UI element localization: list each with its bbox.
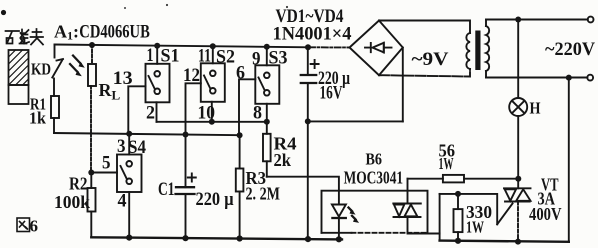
wire DC minus: [308, 120, 403, 122]
capacitor C1: [176, 135, 195, 239]
wire timing net: [54, 133, 240, 135]
switch S3: [239, 47, 279, 135]
speck a: [166, 4, 168, 6]
transformer secondary: [466, 33, 470, 69]
wire gate net: [440, 194, 498, 224]
node dot LED rail: [336, 236, 342, 242]
svg-text:1: 1: [147, 45, 154, 66]
svg-text:1N4001×4: 1N4001×4: [273, 24, 352, 45]
wire switched net: [157, 121, 267, 123]
label fig char: [17, 218, 30, 232]
opto LED: [332, 205, 346, 240]
svg-text:KD: KD: [31, 60, 51, 79]
svg-text:R2: R2: [69, 174, 88, 194]
svg-text:6: 6: [30, 217, 39, 236]
wire R4 to opto LED: [267, 177, 339, 205]
svg-text:400V: 400V: [529, 204, 562, 224]
wire line2 down to rail: [568, 78, 570, 242]
node dot VT top: [515, 176, 521, 182]
switch S2: [186, 46, 225, 134]
resistor R1: [51, 96, 59, 133]
svg-text:S3: S3: [269, 48, 288, 69]
resistor 56: [408, 175, 516, 183]
node dot S4 pin4 rail: [126, 235, 132, 241]
node dot line2: [566, 75, 572, 81]
wire opto pin4 vertical: [439, 194, 441, 241]
svg-text:B6: B6: [366, 150, 383, 169]
node dot 330 rail: [455, 238, 461, 244]
resistor R3: [236, 135, 244, 238]
capacitor 220u 16V: [301, 47, 316, 239]
svg-text:C1: C1: [158, 179, 175, 200]
node dot S2 top: [210, 43, 216, 49]
svg-text:10: 10: [198, 103, 216, 124]
svg-text:2. 2M: 2. 2M: [246, 184, 281, 204]
transformer core: [475, 31, 480, 71]
terminal line2: [587, 75, 593, 81]
label magnet chars: [6, 29, 44, 45]
capacitor 220u plus: [311, 60, 319, 68]
photoresistor RL: [88, 45, 96, 173]
svg-text:S2: S2: [216, 47, 235, 68]
svg-text:8: 8: [253, 103, 262, 124]
svg-text:MOC3041: MOC3041: [344, 168, 404, 188]
svg-text:2k: 2k: [274, 150, 292, 170]
resistor R2: [88, 173, 96, 238]
wire bridge bottom to transformer: [379, 69, 470, 77]
wire lamp to VT: [517, 116, 519, 188]
node dot S3 pin8: [264, 119, 270, 125]
svg-text:~9V: ~9V: [412, 49, 449, 70]
svg-text:S1: S1: [161, 46, 180, 67]
transformer primary: [486, 20, 489, 78]
svg-text:A1:: A1:: [54, 22, 79, 43]
lamp H: [509, 98, 527, 116]
wire bottom rail left: [91, 237, 342, 239]
svg-text:16V: 16V: [320, 84, 343, 104]
wire bridge top to transformer: [379, 21, 470, 34]
node dot C1 rail: [182, 235, 188, 241]
wire lamp branch: [517, 20, 519, 99]
node dot cap top: [305, 44, 311, 50]
triac VT: [497, 188, 530, 241]
node dot C1 top: [183, 132, 189, 138]
node dot S3 top: [264, 44, 270, 50]
node dot S2 pin10: [209, 119, 215, 125]
svg-text:H: H: [530, 99, 541, 118]
opto triac: [393, 179, 439, 234]
resistor 330: [454, 194, 463, 241]
svg-text:1W: 1W: [439, 154, 454, 173]
svg-text:11: 11: [198, 46, 211, 67]
node dot S1 top: [154, 43, 160, 49]
svg-text:100k: 100k: [54, 192, 90, 212]
svg-text:13: 13: [113, 68, 133, 89]
svg-text:1W: 1W: [466, 218, 484, 237]
bridge rectifier VD1-VD4: [350, 21, 403, 76]
svg-text:~220V: ~220V: [545, 39, 595, 60]
svg-text:S4: S4: [128, 137, 146, 158]
node dot R3 top: [237, 132, 243, 138]
light arrows: [70, 56, 85, 77]
node dot S4 pin3: [126, 131, 132, 137]
svg-text:6: 6: [236, 63, 245, 84]
speck b: [286, 6, 288, 8]
node dot 330 top: [455, 191, 461, 197]
switch S1: [128, 46, 169, 134]
speck top left: [1, 10, 6, 15]
optocoupler B6 box: [322, 191, 428, 233]
reed switch KD: [52, 45, 63, 97]
node dot DC minus: [305, 118, 311, 124]
svg-text:12: 12: [183, 65, 200, 86]
resistor R4: [263, 134, 271, 177]
speck c: [124, 7, 126, 9]
node dot line1 lamp: [515, 17, 521, 23]
svg-text:3: 3: [117, 136, 126, 157]
terminal line1: [588, 17, 594, 23]
node dot R3 rail: [237, 235, 243, 241]
svg-text:5: 5: [102, 153, 111, 174]
wire top rail: [55, 45, 310, 48]
svg-text:220 μ: 220 μ: [196, 189, 234, 210]
switch S4: [91, 134, 141, 238]
svg-text:1k: 1k: [29, 109, 47, 128]
node dot VT bottom: [515, 239, 521, 245]
magnet body: [9, 50, 29, 104]
svg-text:2: 2: [146, 103, 155, 124]
wire bridge right corner down: [402, 48, 404, 122]
wire bottom rail right: [440, 241, 569, 242]
node dot RL R2 junction: [88, 170, 94, 176]
node dot cap rail: [305, 236, 311, 242]
wire 220V line1: [486, 19, 588, 21]
capacitor C1 plus: [188, 174, 196, 182]
svg-text:9: 9: [252, 49, 261, 70]
opto LED arrows: [349, 208, 360, 223]
wire 220V line2: [486, 77, 587, 79]
svg-text:4: 4: [118, 191, 127, 212]
svg-text:CD4066UB: CD4066UB: [79, 22, 150, 43]
node dot RL top: [89, 42, 95, 48]
